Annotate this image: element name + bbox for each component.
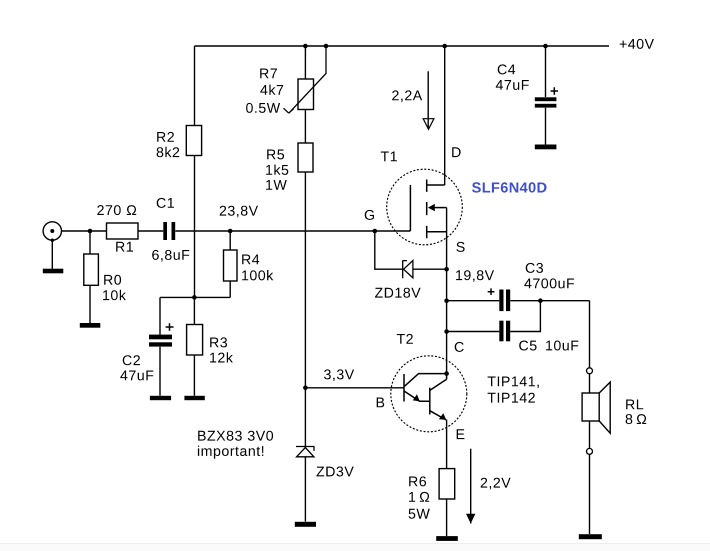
ground (R6) xyxy=(436,536,458,541)
plus sign C2 xyxy=(166,323,174,331)
label R6 xyxy=(409,476,426,486)
wire +40V rail xyxy=(195,45,610,47)
label 10k xyxy=(103,290,126,300)
transistor T1 internals xyxy=(410,180,446,239)
label 6,8uF xyxy=(152,250,189,262)
wire RL branch top xyxy=(589,301,591,368)
node gate/ZD18V xyxy=(373,229,378,234)
label S xyxy=(456,242,464,252)
RL terminal bottom xyxy=(587,448,593,454)
T1 gate plate xyxy=(409,185,411,231)
label 4700uF xyxy=(524,278,574,288)
wire bias node horizontal xyxy=(160,296,230,298)
node rail/R7 arrow xyxy=(324,44,329,49)
ground (RL) xyxy=(579,534,602,539)
label 100k xyxy=(242,270,273,280)
T1 channel segments xyxy=(426,180,428,239)
ground (R0) xyxy=(80,323,101,328)
T2 Q1 collector xyxy=(404,374,446,387)
resistor R2 xyxy=(186,126,201,156)
node C3/C5 right xyxy=(538,298,543,303)
label 4k7 xyxy=(260,85,283,95)
zener diode ZD3V xyxy=(296,447,314,457)
wire R3 to ground xyxy=(193,355,195,396)
wire gate to ZD18V branch xyxy=(375,231,402,269)
label R4 xyxy=(242,255,259,265)
wire R0 branch top xyxy=(89,231,91,254)
label 2,2A xyxy=(392,90,422,102)
label 8 Ohm xyxy=(626,414,647,424)
voltage arrow 2,2V xyxy=(470,449,472,524)
label C1 xyxy=(157,198,174,208)
zener diode ZD18V xyxy=(403,260,413,278)
wire T1 source vertical down to T2 collector xyxy=(446,208,448,374)
wire connector ground lead xyxy=(51,240,53,268)
capacitor C3 plates xyxy=(499,290,503,312)
node rail/T1 drain xyxy=(442,44,447,49)
wire R4 bottom lead xyxy=(229,281,231,297)
label C xyxy=(455,342,464,352)
label D xyxy=(452,147,460,157)
label 47uF xyxy=(496,80,529,90)
label important! xyxy=(198,446,263,459)
capacitor C4 plates xyxy=(535,97,557,101)
T2 Q2 base bar xyxy=(429,388,431,415)
wire T1 drain vertical xyxy=(444,46,446,185)
wire base wire 3,3V node to T2 xyxy=(305,387,404,389)
wire speaker to terminal xyxy=(589,421,591,448)
label 270 Ohm xyxy=(97,205,136,215)
label C4 xyxy=(498,64,516,74)
T1 source lead xyxy=(427,231,447,233)
wire C3 right to RL branch xyxy=(510,300,589,302)
label 10uF xyxy=(546,341,578,351)
wire C5 right up to C3 wire xyxy=(510,301,540,332)
wire ZD18V to source xyxy=(413,268,447,270)
label R0 xyxy=(104,275,121,285)
label 23,8V xyxy=(220,206,258,218)
wire R7 top lead xyxy=(304,46,306,79)
node input/R4 xyxy=(228,229,233,234)
wire C3 left xyxy=(447,300,500,302)
wire RL to ground xyxy=(589,454,591,534)
node base/ZD3V xyxy=(303,386,308,391)
RL terminal top xyxy=(587,368,593,374)
wire C2 branch xyxy=(159,297,161,334)
node bias (R2/R3/C2/R4) xyxy=(192,295,197,300)
label 1W xyxy=(266,180,287,190)
label R5 xyxy=(267,150,284,160)
label R2 xyxy=(157,132,174,142)
node source/C3 xyxy=(444,298,449,303)
label ZD18V xyxy=(375,288,421,298)
resistor R1 xyxy=(107,223,139,239)
label ZD3V xyxy=(317,467,354,477)
label RL xyxy=(626,400,643,410)
label 0.5W xyxy=(246,103,280,113)
label BZX83 3V0 xyxy=(198,431,273,441)
resistor R5 xyxy=(298,143,313,172)
label R3 xyxy=(210,337,227,347)
transistor T1 circle (dashed) xyxy=(387,169,463,245)
resistor R7 (trimmer) xyxy=(298,79,314,110)
label TIP141, xyxy=(488,377,539,389)
T2 Q2 emitter xyxy=(430,411,446,420)
wire C5 left xyxy=(447,331,500,333)
resistor R3 xyxy=(187,325,203,356)
label R7 xyxy=(260,69,277,79)
wire R3 branch xyxy=(193,297,195,324)
label 1k5 xyxy=(266,165,288,175)
label 3,3V xyxy=(324,369,354,381)
label C2 xyxy=(123,355,140,365)
T2 Q1 emitter arrowhead xyxy=(413,394,420,401)
wire R2 branch upper xyxy=(194,46,196,126)
resistor R6 xyxy=(439,469,455,499)
T2 Q2 emitter arrowhead xyxy=(439,413,446,420)
node source/C5 xyxy=(444,329,449,334)
label E xyxy=(457,429,465,439)
label C5 xyxy=(519,341,536,351)
wire R2 branch lower (crosses input wire, to bias node) xyxy=(194,156,196,298)
ground (C4) xyxy=(535,145,557,150)
transistor T2 internals (darlington) xyxy=(404,374,447,420)
label R1 xyxy=(116,242,133,252)
wire C4 branch top xyxy=(545,46,547,97)
label B xyxy=(377,398,385,408)
label 8k2 xyxy=(157,147,180,157)
node input/R0 xyxy=(88,229,93,234)
T2 Q1 base bar xyxy=(403,374,405,402)
T2 Q1 emitter xyxy=(404,391,429,401)
ground (input connector) xyxy=(43,269,64,274)
label TIP142 xyxy=(488,393,535,403)
wire C1 to gate xyxy=(175,230,410,232)
wire R0 to ground xyxy=(89,285,91,323)
ground (C2) xyxy=(150,396,171,400)
ground (R3) xyxy=(184,396,204,400)
wire input line connector to R1 xyxy=(62,230,107,232)
speaker RL xyxy=(582,393,599,421)
bottom edge line xyxy=(0,543,710,544)
wire R4 top lead xyxy=(229,231,231,250)
node rail/R7 xyxy=(303,44,308,49)
current arrow 2,2A xyxy=(427,71,429,129)
label 2,2V xyxy=(481,478,511,490)
label 47uF xyxy=(120,371,153,381)
T1 body arrowhead xyxy=(428,204,435,211)
wire R5 to ZD3V branch xyxy=(304,172,306,446)
resistor R0 xyxy=(84,254,99,285)
label T2 xyxy=(397,334,413,344)
wire T2 emitter to R6 xyxy=(446,420,448,469)
label T1 xyxy=(381,152,397,162)
wire R6 to ground xyxy=(446,499,448,536)
node rail/C4 xyxy=(543,44,548,49)
label 19,8V xyxy=(456,270,494,282)
resistor R4 xyxy=(224,250,238,281)
label 12k xyxy=(210,352,233,362)
plus sign C3 xyxy=(488,288,495,295)
wire C4 to ground xyxy=(545,108,547,145)
label C3 xyxy=(526,263,543,273)
label 1 Ohm xyxy=(409,492,429,502)
plus sign C4 xyxy=(551,87,558,94)
node T2 collector xyxy=(444,371,449,376)
capacitor C2 plates xyxy=(149,335,172,340)
wire C2 to ground xyxy=(159,347,161,396)
T1 drain lead xyxy=(427,184,445,186)
node source/ZD18V xyxy=(444,267,449,272)
capacitor C5 plates xyxy=(499,321,503,342)
ground (ZD3V) xyxy=(295,522,316,527)
trimmer R7 arrow xyxy=(284,46,327,113)
label G xyxy=(365,210,374,220)
wire R7-R5 lead xyxy=(304,110,306,144)
wire ZD3V to ground xyxy=(304,457,306,522)
transistor T2 circle (dashed) xyxy=(391,356,467,432)
label SLF6N40D xyxy=(472,182,547,192)
label 5W xyxy=(409,509,430,519)
capacitor C1 plates xyxy=(163,222,167,240)
wire R1 to C1 xyxy=(138,230,163,232)
input connector xyxy=(43,222,61,240)
wire RL terminal to speaker xyxy=(589,374,591,393)
T2 Q2 collector xyxy=(430,374,447,391)
label +40V xyxy=(620,39,654,49)
T1 body lead with arrow xyxy=(433,207,447,209)
